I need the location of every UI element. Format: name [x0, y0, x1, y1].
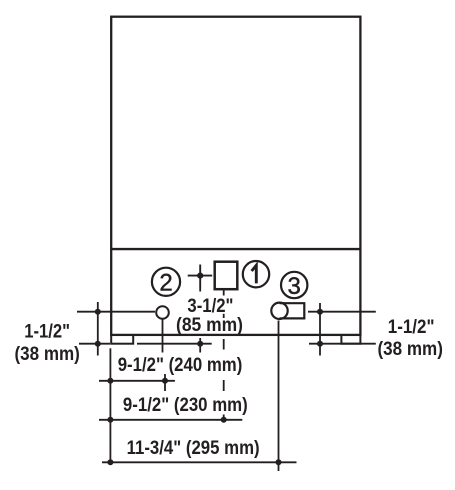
center cross marker (gas line location) [188, 275, 213, 277]
lower panel divider line [110, 248, 360, 250]
right extension line upper [308, 311, 376, 313]
left 1-1/2 dimension vertical line [97, 302, 99, 356]
keyhole slot circle (hole 3) [271, 303, 287, 319]
bottom reference line segment (under cross centerline) [137, 343, 212, 345]
svg-text:(85 mm): (85 mm) [176, 315, 243, 336]
knockout square (hole 1) [215, 262, 238, 290]
right extension line lower [309, 343, 376, 345]
svg-text:(38 mm): (38 mm) [378, 339, 443, 360]
svg-text:3-1/2": 3-1/2" [187, 296, 233, 317]
junction dot cross centerline / bottom reference [197, 341, 203, 347]
svg-text:9-1/2" (230 mm): 9-1/2" (230 mm) [123, 395, 248, 416]
right 1-1/2 dimension upper dot [317, 309, 323, 315]
square centerline going down (dashed) [223, 290, 225, 295]
left 1-1/2 dimension upper dot [95, 309, 101, 315]
left 1-1/2 dimension lower dot [95, 341, 101, 347]
mounting hole 2 circle [156, 306, 169, 319]
left bottom dims extension vertical [109, 348, 111, 464]
svg-text:3: 3 [288, 273, 301, 300]
callout circle 1 [243, 261, 269, 287]
right 1-1/2 dimension vertical line [319, 303, 321, 356]
tick vertical at hole2 centerline [164, 374, 166, 391]
left extension line lower (foot bottom level) [79, 343, 110, 345]
svg-text:1-1/2": 1-1/2" [24, 322, 70, 343]
dimension line 295mm [102, 461, 297, 463]
left foot [111, 335, 133, 344]
svg-text:(38 mm): (38 mm) [15, 344, 80, 365]
right 1-1/2 dimension lower dot [317, 341, 323, 347]
left extension line upper (hole 2 centerline level) [77, 311, 155, 313]
hole 3 centerline going down [278, 321, 280, 472]
keyhole slot rectangle (hole 3) [280, 303, 305, 318]
callout circle 2 [152, 268, 180, 296]
hole 2 centerline going down [162, 319, 164, 352]
svg-text:11-3/4" (295 mm): 11-3/4" (295 mm) [127, 438, 260, 459]
callout digit 1 [252, 265, 257, 283]
dimension line 240mm [99, 380, 175, 382]
dimension line 230mm [99, 419, 242, 421]
right foot [341, 335, 360, 344]
appliance cabinet outline [111, 17, 360, 335]
callout circle 3 [281, 272, 307, 298]
cross centerline going down (upper stub) [199, 288, 201, 292]
svg-text:2: 2 [159, 270, 172, 297]
svg-text:1-1/2": 1-1/2" [388, 317, 435, 338]
svg-text:9-1/2" (240 mm): 9-1/2" (240 mm) [118, 355, 243, 376]
cross centerline going down (lower segment) [199, 338, 201, 353]
